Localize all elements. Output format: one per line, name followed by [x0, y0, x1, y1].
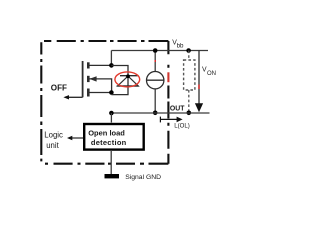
ground (signal GND bar) [105, 174, 120, 178]
body stub [87, 76, 90, 82]
node: rail to current source [153, 48, 158, 53]
Vbb rail [111, 50, 208, 52]
gate lead wire [65, 96, 83, 98]
wire box to signal ground [110, 150, 112, 174]
chip boundary dash-dot border: bottom side [45, 163, 168, 165]
current source circle [147, 72, 164, 89]
L(OL) current arrow [160, 118, 177, 120]
node: OUT junction [109, 111, 114, 116]
diode D1 cathode bar [120, 75, 138, 77]
VON arrowhead [195, 103, 203, 112]
wire OUT to detection box [110, 113, 112, 123]
VON red tick [198, 85, 200, 90]
svg-text:Open load: Open load [88, 128, 125, 137]
source lead [88, 92, 111, 94]
diode D1 branch (inverse diode) [111, 66, 128, 95]
svg-text:unit: unit [46, 141, 59, 150]
source stub [87, 89, 90, 97]
load L(OL) dashed lead top [188, 51, 190, 61]
diode D1 anode base line [117, 85, 139, 87]
load L(OL) dashed rectangle [184, 60, 195, 90]
load dashed lead bottom [188, 90, 190, 113]
open load detection box U2 [84, 124, 144, 150]
L(OL) arrowhead [177, 117, 183, 123]
svg-text:Signal GND: Signal GND [125, 174, 161, 181]
node: load to OUT rail [187, 111, 192, 116]
svg-text:OUT: OUT [170, 105, 185, 112]
svg-text:detection: detection [91, 138, 127, 147]
body lead [88, 79, 111, 93]
wire drain to rail [110, 51, 112, 66]
svg-text:L(OL): L(OL) [174, 122, 190, 129]
L(OL) tail tick [159, 117, 161, 123]
current source I(OL) wires [154, 51, 156, 113]
VON arrow line [198, 51, 200, 104]
node: source junction [109, 90, 114, 95]
red highlight ellipse [115, 72, 140, 87]
current source bar [147, 79, 164, 81]
gate bar [82, 61, 84, 97]
diode apex node [126, 74, 130, 78]
red artifact on current source wire [154, 60, 156, 62]
chip boundary dash-dot border: top side [44, 40, 168, 42]
gate lead arrowhead [63, 95, 69, 99]
body arrow [89, 76, 96, 81]
svg-text:ON: ON [207, 71, 216, 77]
transistor Q1 (power DMOS) [65, 61, 112, 97]
drain stub [87, 62, 90, 68]
svg-text:OFF: OFF [51, 83, 67, 92]
chip boundary dash-dot border: right side [167, 41, 169, 164]
node: rail to load [186, 48, 191, 53]
node: current source to OUT [153, 111, 158, 116]
node: drain junction [109, 63, 114, 68]
OUT rail [111, 112, 209, 114]
chip boundary dash-dot border: left side [40, 42, 42, 161]
drain lead [88, 64, 111, 66]
diode D1 triangle [118, 76, 139, 86]
arrow detection box to logic [70, 137, 84, 139]
svg-text:Logic: Logic [44, 131, 63, 140]
arrowhead to logic [67, 136, 72, 140]
svg-text:bb: bb [177, 42, 184, 49]
red dash segment of border [167, 72, 169, 82]
